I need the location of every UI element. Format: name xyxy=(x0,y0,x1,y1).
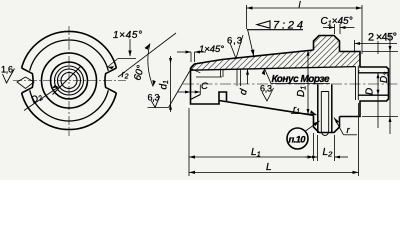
svg-text:C: C xyxy=(201,81,208,92)
svg-text:2 ×45°: 2 ×45° xyxy=(368,32,397,44)
svg-text:1×45°: 1×45° xyxy=(113,30,142,41)
svg-text:L2: L2 xyxy=(323,147,334,159)
svg-text:7:24: 7:24 xyxy=(273,20,303,32)
svg-text:L1: L1 xyxy=(251,147,261,159)
svg-text:6,3: 6,3 xyxy=(260,84,272,94)
svg-text:6,3: 6,3 xyxy=(148,93,160,103)
svg-text:п.10: п.10 xyxy=(289,135,307,146)
svg-text:L: L xyxy=(266,162,272,173)
svg-text:1,6: 1,6 xyxy=(1,65,13,75)
svg-text:1×45°: 1×45° xyxy=(199,44,224,55)
svg-text:D: D xyxy=(365,88,376,95)
svg-text:Конус Морзе: Конус Морзе xyxy=(272,74,330,85)
svg-text:6,3: 6,3 xyxy=(227,36,242,47)
svg-text:C1×45°: C1×45° xyxy=(321,16,353,28)
